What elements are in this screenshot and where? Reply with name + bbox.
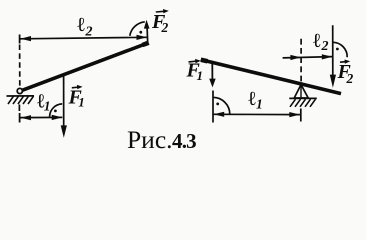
dashed extension line from l2 down to pivot: [19, 45, 21, 88]
ground line under pivot: [7, 95, 35, 97]
l1 dimension line (left diagram): [20, 116, 62, 118]
label l2 (left diagram): [77, 14, 92, 40]
ground line under fulcrum: [289, 97, 317, 99]
right-angle arc at l1/F1 corner (right diagram): [213, 97, 230, 114]
paper background: [0, 0, 366, 156]
l2 dimension end tick (left): [19, 35, 21, 44]
label l2 (right diagram): [313, 30, 329, 54]
ground hatching (left support): [8, 96, 34, 104]
l1 dimension line (right diagram): [213, 113, 300, 115]
label F1 with vector bar (left diagram): [68, 87, 85, 110]
label F2 with vector bar (right diagram): [337, 61, 354, 86]
dashed extension line above fulcrum: [300, 39, 302, 82]
l1 dimension end tick (left diagram): [19, 113, 21, 123]
lever rod (left diagram): [22, 43, 149, 91]
l1 right arrowhead (right diagram): [289, 112, 300, 117]
support triangle (fulcrum): [294, 85, 308, 98]
l2 left arrowhead: [20, 36, 31, 41]
dashed extension from pivot down to l1: [18, 105, 20, 112]
svg-text:1: 1: [197, 68, 204, 83]
svg-text:ℓ: ℓ: [248, 88, 256, 110]
svg-text:1: 1: [78, 95, 85, 110]
l2 middle arrowhead at fulcrum (right diagram): [290, 55, 301, 60]
pivot hinge circle: [17, 88, 22, 93]
right-angle dot at l1/F1 corner (right diagram): [216, 103, 219, 106]
l1 dimension right tick (right diagram): [300, 109, 302, 122]
l2 dimension line (right diagram): [283, 57, 333, 58]
force F2 arrow (right diagram, down): [330, 25, 336, 88]
l1 left arrowhead (right diagram): [214, 112, 225, 117]
svg-text:2: 2: [346, 71, 354, 86]
l2 right arrowhead (right diagram): [322, 54, 333, 59]
svg-text:2: 2: [85, 25, 93, 40]
label l1 (right diagram): [248, 88, 263, 111]
svg-text:1: 1: [256, 97, 263, 112]
label l1 (left diagram): [37, 90, 51, 113]
l2 dimension line (left diagram): [20, 37, 147, 39]
l2 right arrowhead: [137, 35, 148, 40]
right-angle arc at l1/F1 corner (left diagram): [50, 104, 63, 117]
caption: Рис. 4.3: [127, 125, 196, 154]
force F2 arrow (left diagram, up): [144, 20, 150, 43]
force F1 arrow (right diagram, down): [209, 62, 216, 87]
ground hatching (right support): [290, 99, 316, 107]
svg-text:Рис.: Рис.: [127, 125, 173, 154]
l1 left arrowhead (left diagram): [20, 115, 31, 120]
svg-text:ℓ: ℓ: [77, 14, 85, 36]
right-angle dot at l1/F1 corner: [54, 110, 57, 113]
right-angle dot at rod tip: [139, 31, 142, 34]
l1 right arrowhead (left diagram): [52, 115, 63, 120]
svg-text:2: 2: [161, 20, 169, 35]
F1 extension line down to l1 (right diagram): [212, 91, 214, 123]
right-angle arc at rod tip (left diagram): [130, 22, 145, 36]
label F1 with vector bar (right diagram): [186, 60, 204, 84]
svg-text:ℓ: ℓ: [313, 30, 321, 52]
svg-text:4.3: 4.3: [172, 129, 196, 153]
label F2 with vector bar (left diagram): [151, 11, 169, 35]
svg-text:1: 1: [44, 99, 51, 114]
lever rod (right diagram): [201, 60, 341, 94]
right-angle arc at l2/F2 crossing (right diagram): [333, 42, 347, 57]
svg-text:2: 2: [321, 39, 329, 54]
force F1 arrow (left diagram, down): [61, 74, 67, 138]
right-angle dot at l2/F2 crossing (right diagram): [336, 48, 339, 51]
